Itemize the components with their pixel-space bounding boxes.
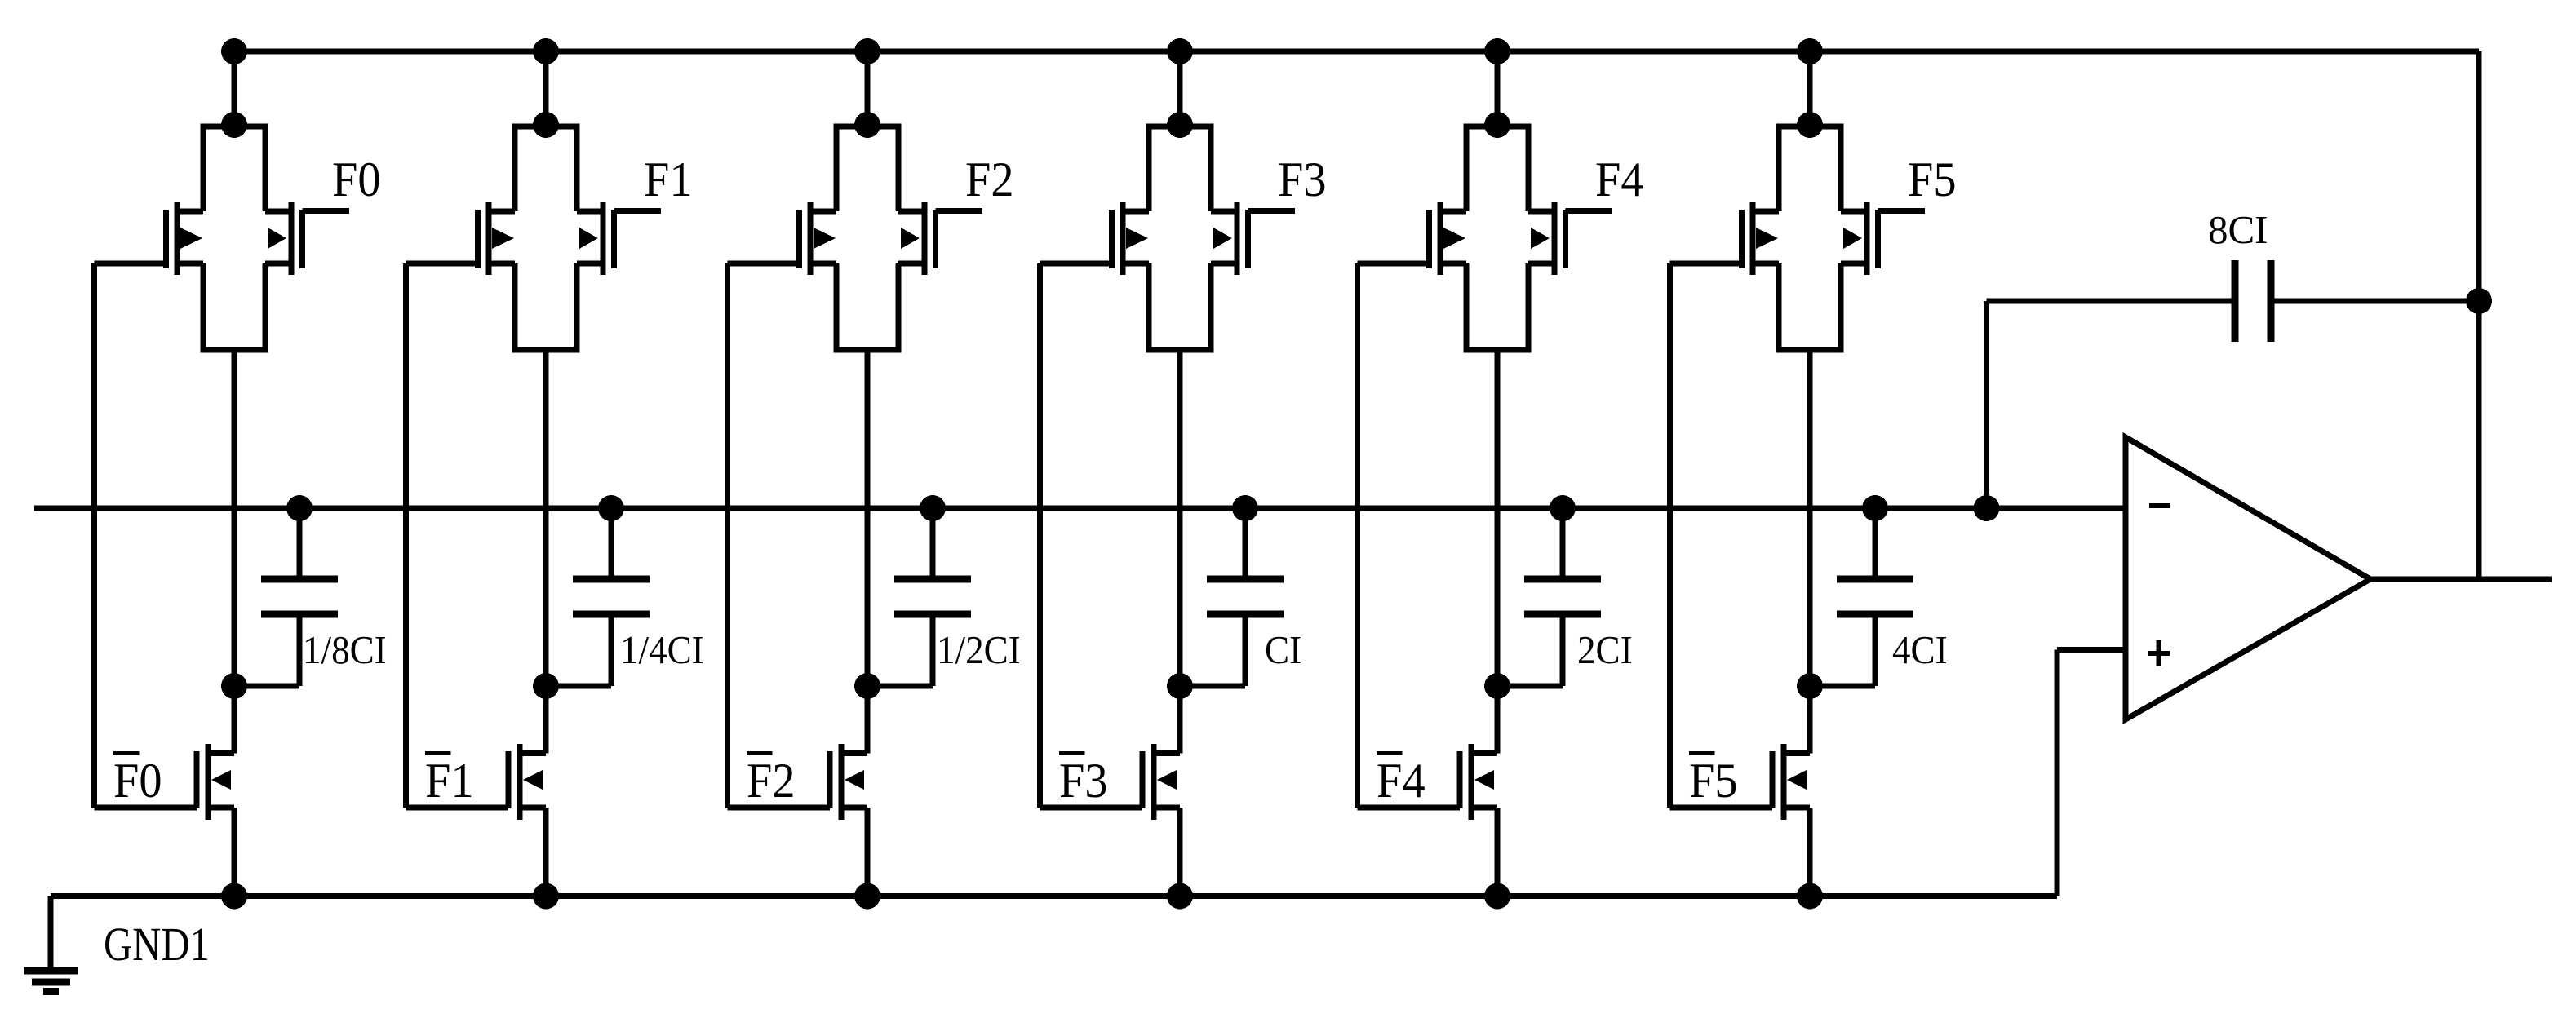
transmission gate T1 (F1/F̄1)	[475, 124, 617, 353]
junction transmission gate F1 top	[533, 112, 559, 138]
label F̄5	[1689, 751, 1715, 755]
wire gate lead F̄3 (left, down to NMOS M3)	[1037, 261, 1142, 811]
junction input bus node cell 1	[598, 495, 624, 521]
junction feedback node on right drop	[2466, 288, 2492, 314]
junction top rail node cell 2	[854, 38, 880, 64]
junction capacitor bottom node cell 3	[1167, 673, 1193, 699]
label F̄0	[113, 751, 140, 755]
svg-text:F3: F3	[1278, 152, 1327, 206]
junction input bus node cell 5	[1862, 495, 1888, 521]
wire capacitor bottom link cell 0	[234, 614, 303, 689]
wire stub top rail to transmission gate F1	[543, 51, 549, 125]
capacitor C7 value 8CI (feedback)	[2232, 260, 2275, 342]
capacitor C1 value 1/4CI	[573, 508, 650, 618]
junction top rail node cell 0	[221, 38, 247, 64]
svg-text:8CI: 8CI	[2208, 207, 2268, 252]
wire capacitor bottom link cell 2	[867, 614, 936, 689]
transmission gate T3 (F3/F̄3)	[1109, 124, 1251, 353]
svg-text:F1: F1	[644, 152, 693, 206]
wire inverting-input bus	[34, 506, 2126, 511]
junction ground rail node cell 0	[221, 883, 247, 910]
wire NMOS M3 source to ground rail	[1177, 808, 1183, 896]
capacitor C3 value CI	[1207, 508, 1284, 618]
transistor M4 NMOS switch (F̄4)	[1457, 744, 1498, 820]
transmission gate T4 (F4/F̄4)	[1426, 124, 1568, 353]
junction input bus node cell 0	[286, 495, 313, 521]
wire capacitor bottom link cell 1	[546, 614, 614, 689]
op-amp U1	[2126, 437, 2370, 719]
svg-text:GND1: GND1	[104, 918, 210, 971]
transmission gate T2 (F2/F̄2)	[796, 124, 938, 353]
junction input bus node cell 2	[920, 495, 946, 521]
wire transmission gate output tap cell 3	[1177, 350, 1183, 754]
svg-text:1/8CI: 1/8CI	[303, 628, 387, 672]
capacitor C5 value 4CI	[1837, 508, 1913, 618]
svg-text:F5: F5	[1689, 753, 1738, 808]
wire op-amp output	[2370, 577, 2552, 582]
wire gate lead F̄4 (left, down to NMOS M4)	[1355, 261, 1460, 811]
junction top rail node cell 1	[533, 38, 559, 64]
svg-text:4CI: 4CI	[1892, 628, 1948, 672]
transistor M5 NMOS switch (F̄5)	[1770, 744, 1811, 820]
junction top rail node cell 5	[1797, 38, 1823, 64]
op-amp inverting pin mark -	[2149, 503, 2170, 508]
junction input bus node cell 4	[1550, 495, 1576, 521]
wire transmission gate output tap cell 1	[543, 350, 549, 754]
svg-text:F4: F4	[1377, 753, 1425, 808]
wire transmission gate output tap cell 4	[1495, 350, 1501, 754]
svg-text:F5: F5	[1908, 152, 1957, 206]
junction ground rail node cell 5	[1797, 883, 1823, 910]
transistor M2 NMOS switch (F̄2)	[827, 744, 868, 820]
wire gate lead F̄2 (left, down to NMOS M2)	[725, 261, 830, 811]
wire gate lead F1 (right stub)	[614, 208, 662, 214]
op-amp non-inverting pin mark +	[2148, 640, 2170, 666]
junction capacitor bottom node cell 4	[1484, 673, 1510, 699]
wire stub top rail to transmission gate F2	[865, 51, 871, 125]
junction capacitor bottom node cell 1	[533, 673, 559, 699]
wire gate lead F2 (right stub)	[936, 208, 983, 214]
wire non-inverting input from ground rail	[2055, 647, 2126, 896]
transistor M1 NMOS switch (F̄1)	[506, 744, 547, 820]
svg-text:F2: F2	[747, 753, 796, 808]
wire stub top rail to transmission gate F3	[1177, 51, 1183, 125]
wire NMOS M5 source to ground rail	[1807, 808, 1813, 896]
wire NMOS M0 source to ground rail	[232, 808, 237, 896]
wire NMOS M1 source to ground rail	[543, 808, 549, 896]
svg-text:F0: F0	[332, 152, 381, 206]
transmission gate T0 (F0/F̄0)	[163, 124, 305, 353]
svg-text:F2: F2	[965, 152, 1014, 206]
wire gate lead F4 (right stub)	[1566, 208, 1613, 214]
wire NMOS M4 source to ground rail	[1495, 808, 1501, 896]
wire capacitor bottom link cell 5	[1810, 614, 1878, 689]
svg-text:2CI: 2CI	[1577, 628, 1633, 672]
junction transmission gate F3 top	[1167, 112, 1193, 138]
junction capacitor bottom node cell 0	[221, 673, 247, 699]
wire transmission gate output tap cell 5	[1807, 350, 1813, 754]
wire feedback cap left lead	[1984, 299, 2235, 509]
wire gate lead F̄1 (left, down to NMOS M1)	[403, 261, 508, 811]
transistor M0 NMOS switch (F̄0)	[194, 744, 235, 820]
svg-text:CI: CI	[1265, 628, 1301, 672]
wire feedback cap right lead	[2271, 299, 2479, 304]
wire transmission gate output tap cell 0	[232, 350, 237, 754]
junction transmission gate F2 top	[854, 112, 880, 138]
junction transmission gate F4 top	[1484, 112, 1510, 138]
junction transmission gate F5 top	[1797, 112, 1823, 138]
wire gate lead F3 (right stub)	[1248, 208, 1296, 214]
svg-text:F3: F3	[1059, 753, 1108, 808]
svg-text:1/2CI: 1/2CI	[937, 628, 1021, 672]
label F̄1	[425, 751, 451, 755]
junction ground rail node cell 3	[1167, 883, 1193, 910]
wire top rail (op-amp output feedback net)	[234, 49, 2479, 55]
label F̄4	[1377, 751, 1403, 755]
svg-text:F0: F0	[113, 753, 162, 808]
junction ground rail node cell 1	[533, 883, 559, 910]
capacitor C4 value 2CI	[1524, 508, 1601, 618]
transmission gate T5 (F5/F̄5)	[1739, 124, 1881, 353]
junction capacitor bottom node cell 5	[1797, 673, 1823, 699]
wire stub top rail to transmission gate F4	[1495, 51, 1501, 125]
wire right feedback drop (top rail to op-amp output)	[2476, 51, 2482, 579]
svg-text:F4: F4	[1595, 152, 1644, 206]
wire gate lead F̄0 (left, down to NMOS M0)	[91, 261, 197, 811]
junction top rail node cell 4	[1484, 38, 1510, 64]
wire gate lead F̄5 (left, down to NMOS M5)	[1667, 261, 1772, 811]
svg-text:1/4CI: 1/4CI	[620, 628, 704, 672]
ground symbol GND1	[24, 967, 78, 996]
junction top rail node cell 3	[1167, 38, 1193, 64]
junction transmission gate F0 top	[221, 112, 247, 138]
wire capacitor bottom link cell 3	[1180, 614, 1248, 689]
label F̄3	[1059, 751, 1085, 755]
svg-text:F1: F1	[425, 753, 474, 808]
capacitor C2 value 1/2CI	[894, 508, 971, 618]
wire transmission gate output tap cell 2	[865, 350, 871, 754]
junction input bus node cell 3	[1232, 495, 1258, 521]
wire stub top rail to transmission gate F5	[1807, 51, 1813, 125]
wire bottom ground rail GND1	[51, 893, 2057, 899]
junction ground rail node cell 4	[1484, 883, 1510, 910]
wire capacitor bottom link cell 4	[1497, 614, 1566, 689]
label F̄2	[747, 751, 773, 755]
junction capacitor bottom node cell 2	[854, 673, 880, 699]
junction feedback lead on input bus	[1974, 495, 2000, 521]
capacitor C0 value 1/8CI	[261, 508, 338, 618]
wire NMOS M2 source to ground rail	[865, 808, 871, 896]
wire gate lead F5 (right stub)	[1878, 208, 1926, 214]
wire stub top rail to transmission gate F0	[232, 51, 237, 125]
wire gate lead F0 (right stub)	[303, 208, 350, 214]
transistor M3 NMOS switch (F̄3)	[1140, 744, 1181, 820]
wire ground drop GND1	[48, 896, 54, 968]
junction ground rail node cell 2	[854, 883, 880, 910]
